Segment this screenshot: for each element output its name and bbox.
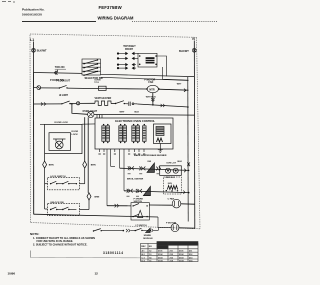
- svg-text:240: 240: [61, 66, 66, 69]
- header: publication number text: [22, 8, 45, 17]
- spark module box: [131, 203, 149, 220]
- svg-text:BLK: BLK: [135, 112, 140, 114]
- bottom dotted rule: [31, 256, 141, 259]
- svg-text:214: 214: [189, 260, 193, 263]
- svg-text:WHT BLK: WHT BLK: [146, 96, 157, 98]
- thermal cutout on door row: [99, 86, 107, 90]
- oven light lamp: [88, 111, 94, 117]
- junction bake row/right bus: [188, 170, 190, 172]
- connector on inner right bus: [187, 163, 190, 167]
- svg-text:WHT: WHT: [177, 84, 182, 86]
- wire: second bus below: [101, 77, 189, 80]
- svg-text:MTR: MTR: [149, 88, 154, 91]
- svg-text:BRN: BRN: [95, 196, 100, 198]
- wire from box S right to bus: [157, 56, 167, 76]
- bake row: wire from bus with connectors: [34, 103, 62, 106]
- surface elements box text: [146, 57, 155, 63]
- junction dot motor drop: [152, 104, 154, 106]
- row 1: [117, 53, 119, 55]
- wire: inner right bus: [187, 77, 189, 222]
- bake burner box: [160, 166, 182, 176]
- bake row connectors C: [156, 167, 160, 171]
- door lock motor: [53, 139, 66, 149]
- wire motor right to bus: [158, 89, 188, 90]
- EOC inner module box: [154, 124, 172, 144]
- svg-text:BROIL IGNITER: BROIL IGNITER: [127, 178, 144, 180]
- wire: left bus lower part: [33, 73, 35, 215]
- vent label: [95, 97, 112, 100]
- svg-text:IGN: IGN: [148, 161, 152, 163]
- wire to element: [80, 102, 95, 104]
- igniter triangle small (door light): [145, 228, 150, 233]
- row 2: [117, 58, 119, 60]
- tiny wire color dashes row1: [128, 173, 160, 175]
- tiny wire color dashes row2: [127, 195, 140, 197]
- wire: drop to diamond 3: [87, 117, 89, 193]
- wire into spark module left: [107, 205, 131, 207]
- svg-text:FRONT: FRONT: [125, 49, 134, 51]
- svg-text:BAKE IGNITER BAKE BURNE: BAKE IGNITER BAKE BURNER: [134, 154, 167, 157]
- wire: drop to diamond 2: [84, 117, 86, 161]
- svg-text:VENT HEATER: VENT HEATER: [95, 97, 112, 100]
- EOC pin labels: [98, 153, 145, 155]
- svg-text:D 4: D 4: [142, 260, 146, 263]
- revision table: [141, 242, 199, 262]
- connector plug on L1: [32, 48, 36, 52]
- wire from box2 to diamond3: [79, 200, 89, 210]
- TOD label: [55, 66, 65, 69]
- thermal fuse circle: [77, 102, 80, 105]
- connector pair on motor drop: [151, 98, 154, 102]
- relay terminal dots: [103, 124, 145, 143]
- svg-text:LOCK: LOCK: [72, 134, 79, 136]
- broil row connector pair A: [127, 189, 133, 193]
- ground symbol EOC: [158, 150, 163, 153]
- small tick above rule: [30, 251, 32, 258]
- wire down to lower circle: [158, 217, 171, 228]
- svg-text:P SPARK: P SPARK: [134, 197, 144, 200]
- svg-text:318001114: 318001114: [103, 251, 124, 255]
- header rule solid: [22, 21, 96, 23]
- svg-text:5995919530: 5995919530: [22, 13, 42, 17]
- bake row connector pair A: [128, 166, 134, 170]
- svg-text:BRN: BRN: [91, 165, 96, 167]
- svg-text:BLK: BLK: [178, 161, 183, 163]
- wires to lock box 1: [45, 168, 85, 209]
- wire + door switch blade: [40, 85, 98, 88]
- wire motor to N bus: [181, 203, 195, 205]
- svg-text:1. CONNECT BLK/WT TO ALL MODEL: 1. CONNECT BLK/WT TO ALL MODELS AS SHOWN: [33, 236, 95, 240]
- wire: main bus continues right of selector: [101, 74, 195, 76]
- broil row connector pair B: [136, 189, 142, 193]
- surface elements box S: [138, 53, 157, 67]
- svg-text:DOOR LOCK: DOOR LOCK: [55, 122, 69, 124]
- connector arrow near bus: [184, 89, 186, 92]
- svg-text:3104: 3104: [179, 260, 184, 263]
- oven vent motor label: [144, 79, 155, 85]
- svg-text:TCO: TCO: [94, 82, 99, 84]
- svg-text:TOD: TOD: [55, 66, 60, 69]
- diamond connector 3: [87, 193, 91, 200]
- svg-text:N: N: [192, 37, 195, 41]
- door lock labels: [72, 131, 79, 136]
- EOC zigzag bottom: [157, 138, 163, 142]
- svg-text:NOTE:: NOTE:: [30, 232, 39, 236]
- svg-text:UNLOCK SW: UNLOCK SW: [50, 202, 64, 204]
- relay K1: [102, 126, 110, 142]
- surface unit plug grid labels: [123, 46, 136, 51]
- wire: N vertical bus: [193, 41, 196, 229]
- wire: motor drop down: [152, 93, 154, 105]
- svg-text:2. SUBJECT TO CHANGE WITHOUT N: 2. SUBJECT TO CHANGE WITHOUT NOTICE.: [33, 243, 88, 247]
- wire: L1 vertical bus: [33, 42, 35, 73]
- scan mark top left: [2, 1, 15, 4]
- EOC transformer square: [156, 127, 164, 136]
- unlock switch box 2 (dashed): [48, 203, 80, 215]
- broil row wire: [124, 191, 189, 193]
- wire bake row to right bus: [137, 104, 188, 107]
- revision table text blobs: [141, 246, 193, 263]
- diamond connector 2: [83, 161, 87, 168]
- svg-text:ELECTRONIC OVEN CONTROL: ELECTRONIC OVEN CONTROL: [115, 119, 155, 123]
- svg-text:REV: REV: [141, 246, 146, 248]
- EOC ground pin: [159, 144, 161, 151]
- door light switch wire: [93, 228, 159, 233]
- connector on spark feed: [115, 204, 119, 207]
- TCO label: [94, 80, 101, 84]
- svg-text:NO: NO: [149, 246, 153, 248]
- lock switch 1 contacts: [50, 181, 77, 184]
- oven vent motor: [146, 85, 160, 92]
- svg-text:TOP RIGHT: TOP RIGHT: [123, 46, 136, 48]
- door switch row: connector circle: [34, 86, 41, 90]
- row 4: [117, 67, 119, 69]
- svg-text:10/96: 10/96: [8, 272, 16, 276]
- lower motor circle: [171, 224, 179, 232]
- lock switch box 1 (dashed): [48, 178, 80, 190]
- oven selector switch block: [82, 59, 101, 76]
- unlock switch contacts: [50, 207, 77, 210]
- relay K2: [119, 126, 127, 142]
- notes text: [30, 232, 95, 247]
- electronic oven control box: [95, 118, 173, 149]
- bake row connector D: [184, 169, 186, 173]
- wire lower motor to N: [179, 227, 195, 229]
- oven fan motor circle: [172, 199, 181, 208]
- bake row connector pair B: [139, 167, 145, 171]
- svg-text:FEF375BW: FEF375BW: [99, 5, 123, 10]
- svg-text:MODULE: MODULE: [143, 238, 153, 240]
- broil igniter box (dashed): [164, 177, 182, 194]
- row 3: [117, 64, 119, 66]
- chassis ground text blob: [143, 234, 153, 240]
- connector broil row right: [183, 191, 185, 194]
- svg-text:HI LIMIT: HI LIMIT: [59, 95, 69, 97]
- svg-text:P MOTOR: P MOTOR: [166, 222, 177, 224]
- svg-text:WIRING DIAGRAM: WIRING DIAGRAM: [98, 16, 135, 21]
- junction broil row/right bus: [188, 192, 190, 194]
- wire: drop to oven light: [72, 104, 88, 115]
- bake igniter triangle: [147, 161, 154, 172]
- connector plug on N: [192, 48, 196, 52]
- wire from box S bottom to lower bus: [163, 67, 189, 80]
- TOD stub: [57, 70, 59, 73]
- svg-text:LT SWITCH: LT SWITCH: [136, 225, 148, 227]
- svg-text:BLK/WT: BLK/WT: [179, 50, 189, 53]
- svg-text:FAN: FAN: [148, 81, 153, 84]
- broil igniter triangle: [143, 186, 150, 195]
- wire: main bus L1 horizontal (left part): [34, 72, 83, 75]
- bake row wire: [120, 168, 189, 170]
- wire lamp to right bus: [94, 113, 194, 116]
- svg-text:12: 12: [95, 272, 99, 276]
- door lock inner box: [49, 133, 71, 151]
- wire spark module right: [149, 204, 172, 206]
- svg-text:RED BLU: RED BLU: [166, 177, 176, 179]
- header rule dotted: [132, 20, 218, 22]
- disconnect chevrons on bus (TOD): [54, 71, 57, 75]
- wire after element: [111, 103, 115, 105]
- diamond connector 1: [43, 154, 47, 168]
- svg-text:P DOOR SW: P DOOR SW: [50, 79, 65, 82]
- relay K3: [132, 126, 140, 142]
- vent heater element zigzag: [95, 101, 111, 105]
- main bottom bus wire: [34, 214, 159, 217]
- svg-text:3104: 3104: [158, 260, 163, 263]
- switch blade on bake row: [61, 101, 76, 105]
- sheet border frame: [30, 34, 200, 229]
- svg-text:WHT: WHT: [120, 112, 126, 114]
- disconnect pair: [124, 102, 137, 106]
- wire door row to motor: [106, 88, 147, 90]
- EOC pins bottom: [100, 149, 145, 206]
- EOC pins top: [97, 115, 102, 118]
- svg-text:SPARK: SPARK: [144, 234, 152, 237]
- svg-text:OVN LGT: OVN LGT: [166, 162, 176, 164]
- svg-text:FOR USE WITH 40 IN. RANGE.: FOR USE WITH 40 IN. RANGE.: [37, 239, 74, 243]
- svg-text:214: 214: [170, 260, 174, 263]
- switch blade 2: [115, 101, 125, 105]
- svg-text:BLK/WT: BLK/WT: [37, 49, 47, 52]
- door lock assembly outer box: [45, 124, 82, 153]
- svg-text:Publication No.: Publication No.: [22, 8, 45, 12]
- connector on row A right: [161, 104, 165, 107]
- svg-text:BRN: BRN: [49, 165, 54, 167]
- surface unit plug grid: [117, 52, 138, 69]
- relay K4: [143, 126, 147, 142]
